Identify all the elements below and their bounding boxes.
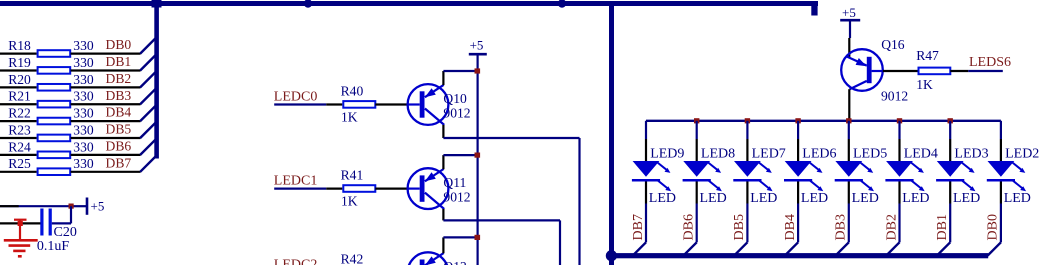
LED LED3 xyxy=(936,147,989,192)
resistor R18 xyxy=(8,38,70,57)
wire +5 rail vertical xyxy=(477,54,479,265)
wire R25 row left xyxy=(0,171,37,173)
svg-text:R47: R47 xyxy=(916,48,939,63)
ground xyxy=(4,219,38,256)
wire anode col 6 xyxy=(898,121,900,161)
transistor Q10 9012 xyxy=(408,84,471,125)
resistor R25 xyxy=(8,156,70,175)
wire R24 row right xyxy=(71,154,141,156)
node junction anode bus col 5 xyxy=(846,118,851,123)
wire main data bus (top horizontal) xyxy=(0,1,818,6)
wire cathode col 7 xyxy=(949,182,951,243)
net label LEDS6 xyxy=(969,55,1011,70)
node junction on bus at x=308 xyxy=(304,0,312,8)
LED LED4 xyxy=(885,147,938,192)
bus entry DB1 xyxy=(937,242,950,255)
LED LED7 xyxy=(733,147,786,192)
part name LED col 6 xyxy=(902,191,929,206)
wire R21 row right xyxy=(71,103,141,105)
net label DB7 xyxy=(631,214,646,240)
wire Q12 emitter to +5 rail xyxy=(443,236,477,238)
wire R22 row left xyxy=(0,120,37,122)
net label DB3 xyxy=(106,88,132,103)
bus entry DB6 xyxy=(683,242,696,255)
wire Q11 emitter pin xyxy=(442,155,444,169)
wire R20 row right xyxy=(71,86,141,88)
svg-text:Q12: Q12 xyxy=(443,259,467,265)
svg-text:C20: C20 xyxy=(54,225,77,240)
net label DB4 xyxy=(783,214,798,240)
svg-text:DB0: DB0 xyxy=(986,214,1001,240)
svg-text:R22: R22 xyxy=(8,106,31,121)
svg-text:LED5: LED5 xyxy=(853,147,887,162)
value 330 of R19 xyxy=(73,55,94,70)
svg-text:9012: 9012 xyxy=(881,89,908,104)
power +5 (middle rail) xyxy=(469,37,487,54)
net label DB2 xyxy=(106,71,132,86)
wire cathode col 6 xyxy=(898,182,900,243)
svg-text:LED: LED xyxy=(953,191,980,206)
resistor R21 xyxy=(8,89,70,108)
wire R18 row left xyxy=(0,52,37,54)
svg-text:DB4: DB4 xyxy=(783,214,798,240)
svg-text:LEDC0: LEDC0 xyxy=(274,89,318,104)
wire Q12 emitter pin xyxy=(442,237,444,253)
bus entry DB7 xyxy=(633,242,646,255)
wire Q16 collector pin xyxy=(848,89,850,121)
resistor R19 xyxy=(8,55,70,74)
svg-text:LED3: LED3 xyxy=(954,147,988,162)
wire LED anode bus xyxy=(646,120,1001,122)
part name LED col 3 xyxy=(750,191,777,206)
bus entry DB7 xyxy=(140,155,157,172)
svg-text:LED: LED xyxy=(1004,191,1031,206)
svg-text:R24: R24 xyxy=(8,139,31,154)
wire anode col 5 xyxy=(848,121,850,161)
svg-text:DB3: DB3 xyxy=(106,88,132,103)
svg-text:330: 330 xyxy=(73,38,94,53)
svg-text:330: 330 xyxy=(73,156,94,171)
node junction anode bus col 7 xyxy=(948,118,953,123)
svg-text:LEDC1: LEDC1 xyxy=(274,174,318,189)
svg-text:9012: 9012 xyxy=(443,106,470,121)
net label DB5 xyxy=(732,214,747,240)
wire Q16 base to R47 xyxy=(883,70,918,72)
value 330 of R18 xyxy=(73,38,94,53)
node junction anode bus col 3 xyxy=(745,118,750,123)
bus T-junction at x=156.6 xyxy=(152,0,162,8)
wire cathode col 4 xyxy=(797,182,799,243)
wire LEDC0 xyxy=(274,103,342,105)
bus entry DB1 xyxy=(140,54,157,71)
part name LED col 4 xyxy=(801,191,828,206)
value 1K of R41 xyxy=(341,194,358,209)
wire R47 right xyxy=(950,70,968,72)
bus entry DB5 xyxy=(734,242,747,255)
svg-text:DB6: DB6 xyxy=(682,214,697,240)
bus entry DB2 xyxy=(886,242,899,255)
capacitor C20 xyxy=(40,209,77,240)
wire C20 to +5 junction xyxy=(70,206,72,223)
net label DB6 xyxy=(682,214,697,240)
transistor Q16 9012 xyxy=(841,37,908,103)
svg-text:R25: R25 xyxy=(8,156,31,171)
svg-text:Q10: Q10 xyxy=(443,91,467,106)
value 330 of R25 xyxy=(73,156,94,171)
svg-text:R41: R41 xyxy=(341,168,364,183)
svg-text:R18: R18 xyxy=(8,38,31,53)
wire +5 to Q16 emitter xyxy=(848,38,850,57)
node junction on bus at x=562 xyxy=(558,0,566,8)
bus entry DB4 xyxy=(785,242,798,255)
svg-text:DB4: DB4 xyxy=(106,105,132,120)
svg-text:LED4: LED4 xyxy=(904,147,938,162)
wire LED bottom thick bus xyxy=(611,253,988,258)
svg-text:1K: 1K xyxy=(341,194,358,209)
wire R22 row right xyxy=(71,120,141,122)
bus end stub xyxy=(811,1,817,16)
bus entry DB2 xyxy=(140,71,157,88)
svg-text:LED: LED xyxy=(700,191,727,206)
svg-text:330: 330 xyxy=(73,139,94,154)
svg-text:9012: 9012 xyxy=(443,190,470,205)
wire cathode col 3 xyxy=(746,182,748,243)
node junction C20/+5 xyxy=(69,204,74,209)
resistor R40 xyxy=(341,84,376,108)
wire anode col 7 xyxy=(949,121,951,161)
svg-text:330: 330 xyxy=(73,106,94,121)
svg-text:DB1: DB1 xyxy=(935,214,950,240)
net label DB3 xyxy=(834,214,849,240)
wire ground rail xyxy=(0,222,41,224)
svg-text:Q16: Q16 xyxy=(881,37,905,52)
bus entry DB0 xyxy=(988,242,1001,255)
resistor R42 xyxy=(341,252,376,265)
node junction thick bus corner xyxy=(606,250,617,261)
node junction emitter/+5 rail xyxy=(475,235,481,240)
value 1K of R47 xyxy=(916,77,933,92)
svg-text:+5: +5 xyxy=(91,199,105,214)
node junction anode bus col 4 xyxy=(795,118,800,123)
net label DB4 xyxy=(106,105,132,120)
svg-text:LED7: LED7 xyxy=(752,147,786,162)
part name LED col 2 xyxy=(700,191,727,206)
LED LED5 xyxy=(835,147,888,192)
net label LEDC0 xyxy=(274,89,318,104)
svg-text:1K: 1K xyxy=(341,109,358,124)
wire anode col 8 xyxy=(1000,121,1002,161)
net label DB7 xyxy=(106,155,132,170)
resistor R23 xyxy=(8,122,70,141)
power +5 (left) xyxy=(71,198,104,215)
svg-text:DB6: DB6 xyxy=(106,139,132,154)
svg-text:R21: R21 xyxy=(8,89,31,104)
wire R25 row right xyxy=(71,171,141,173)
node junction anode bus col 2 xyxy=(694,118,699,123)
svg-text:R42: R42 xyxy=(341,252,364,265)
value 330 of R20 xyxy=(73,72,94,87)
wire R20 row left xyxy=(0,86,37,88)
svg-text:LED: LED xyxy=(750,191,777,206)
svg-text:DB2: DB2 xyxy=(106,71,132,86)
svg-text:LED: LED xyxy=(801,191,828,206)
wire R41 to Q11 xyxy=(375,188,408,190)
svg-text:0.1uF: 0.1uF xyxy=(37,239,70,254)
svg-text:330: 330 xyxy=(73,89,94,104)
svg-text:LED: LED xyxy=(852,191,879,206)
net label DB2 xyxy=(884,214,899,240)
svg-text:DB7: DB7 xyxy=(631,214,646,240)
svg-text:R19: R19 xyxy=(8,55,31,70)
wire thick vertical bus at x=611 xyxy=(609,1,614,265)
svg-text:LED: LED xyxy=(902,191,929,206)
node junction emitter/+5 rail xyxy=(475,68,481,73)
net label DB1 xyxy=(106,54,132,69)
wire R24 row left xyxy=(0,154,37,156)
svg-text:+5: +5 xyxy=(842,5,856,20)
resistor R24 xyxy=(8,139,70,158)
wire R23 row left xyxy=(0,137,37,139)
LED LED6 xyxy=(784,147,837,192)
svg-text:DB2: DB2 xyxy=(884,214,899,240)
wire Q11 collector out xyxy=(443,220,560,265)
net label DB5 xyxy=(106,122,132,137)
power +5 (Q16) xyxy=(840,5,860,38)
node junction anode bus col 6 xyxy=(897,118,902,123)
net label DB6 xyxy=(106,139,132,154)
wire R19 row left xyxy=(0,69,37,71)
wire Q11 collector pin xyxy=(442,209,444,220)
svg-text:LED: LED xyxy=(649,191,676,206)
svg-text:330: 330 xyxy=(73,72,94,87)
net label DB1 xyxy=(935,214,950,240)
svg-text:LED2: LED2 xyxy=(1005,147,1039,162)
wire anode col 2 xyxy=(696,121,698,161)
net label LEDC1 xyxy=(274,174,318,189)
LED LED8 xyxy=(683,147,736,192)
resistor R22 xyxy=(8,106,70,125)
wire net LEDS6 xyxy=(968,70,1003,72)
wire Q10 collector pin xyxy=(442,125,444,138)
wire R21 row left xyxy=(0,103,37,105)
svg-text:DB1: DB1 xyxy=(106,54,132,69)
resistor R47 xyxy=(916,48,950,74)
bus entry DB5 xyxy=(140,121,157,138)
wire Q11 emitter to +5 rail xyxy=(443,154,477,156)
wire cathode col 8 xyxy=(1000,182,1002,243)
wire Q10 emitter pin xyxy=(442,71,444,85)
value 330 of R24 xyxy=(73,139,94,154)
wire +5 rail to C20 xyxy=(0,205,71,207)
wire cathode col 5 xyxy=(848,182,850,243)
wire LEDC1 xyxy=(274,188,342,190)
part name LED col 5 xyxy=(852,191,879,206)
transistor Q12 9012 xyxy=(408,252,471,265)
wire cathode col 2 xyxy=(696,182,698,243)
svg-text:1K: 1K xyxy=(916,77,933,92)
svg-text:LED8: LED8 xyxy=(701,147,735,162)
LED LED9 xyxy=(632,147,685,192)
svg-text:DB5: DB5 xyxy=(732,214,747,240)
bus entry DB3 xyxy=(836,242,849,255)
net label LEDC2 xyxy=(274,258,318,265)
svg-text:LED9: LED9 xyxy=(650,147,684,162)
wire anode col 1 xyxy=(645,121,647,161)
bus entry DB4 xyxy=(140,104,157,121)
transistor Q11 9012 xyxy=(408,168,471,209)
svg-text:R20: R20 xyxy=(8,72,31,87)
svg-text:330: 330 xyxy=(73,122,94,137)
svg-text:LEDC2: LEDC2 xyxy=(274,258,318,265)
svg-text:330: 330 xyxy=(73,55,94,70)
resistor R20 xyxy=(8,72,70,91)
resistor R41 xyxy=(341,168,376,192)
net label DB0 xyxy=(106,37,132,52)
wire R40 to Q10 xyxy=(375,103,408,105)
wire R19 row right xyxy=(71,69,141,71)
node junction emitter/+5 rail xyxy=(475,153,481,158)
svg-text:LED6: LED6 xyxy=(802,147,836,162)
value 330 of R21 xyxy=(73,89,94,104)
svg-text:R40: R40 xyxy=(341,84,364,99)
LED LED2 xyxy=(987,147,1040,192)
wire R23 row right xyxy=(71,137,141,139)
wire Q10 collector out xyxy=(443,138,579,265)
node junction ground xyxy=(18,221,23,226)
svg-text:DB5: DB5 xyxy=(106,122,132,137)
part name LED col 1 xyxy=(649,191,676,206)
svg-text:+5: +5 xyxy=(470,37,484,52)
value 330 of R22 xyxy=(73,106,94,121)
wire anode col 4 xyxy=(797,121,799,161)
svg-text:DB0: DB0 xyxy=(106,37,132,52)
svg-text:Q11: Q11 xyxy=(443,175,466,190)
wire anode col 3 xyxy=(746,121,748,161)
wire Q10 emitter to +5 rail xyxy=(443,70,477,72)
wire R18 row right xyxy=(71,52,141,54)
bus entry DB0 xyxy=(140,37,157,54)
part name LED col 7 xyxy=(953,191,980,206)
wire vertical bus to resistor entries xyxy=(154,1,159,159)
part name LED col 8 xyxy=(1004,191,1031,206)
svg-text:DB3: DB3 xyxy=(834,214,849,240)
svg-text:R23: R23 xyxy=(8,122,31,137)
value 0.1uF of C20 xyxy=(37,239,70,254)
bus entry DB3 xyxy=(140,88,157,105)
net label DB0 xyxy=(986,214,1001,240)
bus entry DB6 xyxy=(140,138,157,155)
wire cathode col 1 xyxy=(645,182,647,243)
value 1K of R40 xyxy=(341,109,358,124)
svg-text:LEDS6: LEDS6 xyxy=(969,55,1011,70)
value 330 of R23 xyxy=(73,122,94,137)
svg-text:DB7: DB7 xyxy=(106,155,132,170)
